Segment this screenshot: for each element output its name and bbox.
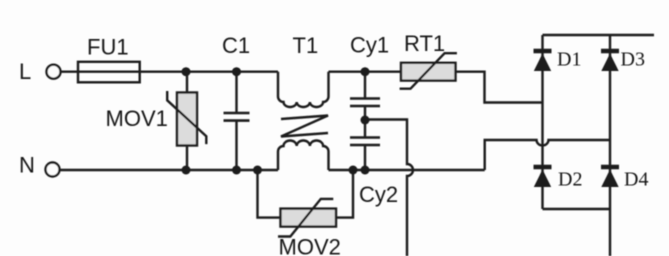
transformer T1 core: [281, 116, 328, 137]
wire MOV2 right lead: [336, 170, 353, 218]
wire Cy2 top lead: [364, 120, 366, 138]
capacitor Cy2: [350, 136, 380, 139]
varistor MOV2: [281, 209, 337, 227]
wire bridge top rail: [543, 34, 655, 36]
svg-text:FU1: FU1: [87, 35, 129, 60]
diode D1: [534, 49, 552, 54]
node N-Cy2 junction: [361, 166, 370, 175]
svg-text:Cy2: Cy2: [359, 182, 398, 207]
wire midpoint to earth (hops over N rail): [365, 120, 413, 256]
terminal N: [46, 163, 60, 177]
svg-text:Cy1: Cy1: [350, 33, 389, 58]
svg-text:N: N: [19, 153, 35, 178]
wire C1 top lead: [235, 72, 237, 113]
wire Cy1 bottom lead: [364, 106, 366, 120]
wire RT1 to bridge AC1: [456, 72, 543, 103]
wire N rail: [60, 169, 278, 171]
transformer T1 top winding: [278, 72, 329, 107]
node L-Cy1 junction: [361, 67, 370, 76]
wire L rail (fuse to T1 left lead): [140, 70, 278, 72]
wire AC2 riser and rail (hops under left bridge leg): [485, 140, 610, 170]
wire bridge right leg: [609, 35, 611, 256]
varistor MOV1: [177, 93, 197, 146]
svg-text:D1: D1: [557, 49, 581, 71]
wire bridge bottom rail: [543, 208, 611, 210]
wire Cy1 top lead: [364, 72, 366, 99]
fuse FU1: [78, 62, 140, 83]
wire through fuse: [78, 70, 140, 72]
diode D4: [601, 165, 619, 170]
svg-text:RT1: RT1: [404, 31, 445, 56]
wire MOV2 left lead: [258, 170, 281, 218]
diode D3: [601, 49, 619, 54]
wire N rail (T1 to AC2 riser): [329, 169, 485, 171]
wire bridge left leg: [541, 35, 543, 209]
wire L terminal to fuse: [61, 70, 78, 72]
terminal L: [47, 65, 61, 79]
svg-text:D4: D4: [624, 169, 648, 191]
node N-MOV2 right junction: [349, 166, 358, 175]
svg-text:D3: D3: [621, 49, 645, 71]
diode D2: [534, 165, 552, 170]
node L-MOV1 junction: [182, 67, 191, 76]
capacitor Cy1: [350, 97, 380, 100]
svg-text:T1: T1: [293, 33, 319, 58]
node N-C1 junction: [232, 166, 241, 175]
svg-text:MOV2: MOV2: [279, 235, 341, 256]
wire Cy2 bottom lead: [364, 145, 366, 170]
transformer T1 bottom winding: [278, 141, 329, 171]
node N-MOV2 left junction: [253, 166, 262, 175]
node Cy1-Cy2 midpoint junction: [361, 116, 370, 125]
wire MOV1 bottom lead: [186, 146, 188, 171]
wire L rail (T1 to RT1): [329, 70, 402, 72]
svg-text:L: L: [19, 59, 31, 84]
capacitor C1: [224, 112, 250, 115]
node L-C1 junction: [232, 67, 241, 76]
wire C1 bottom lead: [235, 121, 237, 170]
thermistor RT1: [401, 63, 456, 81]
svg-text:C1: C1: [222, 33, 250, 58]
wire MOV1 top lead: [186, 72, 188, 93]
svg-text:MOV1: MOV1: [106, 106, 168, 131]
svg-text:D2: D2: [558, 169, 582, 191]
node N-MOV1 junction: [182, 166, 191, 175]
